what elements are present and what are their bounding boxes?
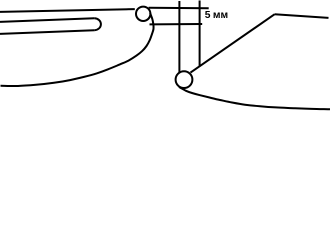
- node left curl circle: [136, 7, 150, 21]
- node fabric curl circle: [176, 71, 193, 88]
- label 5 mm: [205, 10, 228, 21]
- wire top horizontal to gauge: [149, 7, 209, 10]
- wire dimension extension line A: [178, 1, 180, 73]
- wire dimension extension line B: [199, 1, 201, 67]
- wire top line left blade: [0, 9, 135, 12]
- wire slot rounded cap: [94, 18, 101, 30]
- wire second horizontal: [150, 23, 203, 25]
- wire fabric ridge: [275, 14, 329, 18]
- wire left blade sweep: [1, 13, 154, 86]
- wire slot lower line: [0, 30, 94, 34]
- wire fabric bottom sweep: [179, 87, 330, 109]
- wire slot upper line: [0, 18, 94, 22]
- wire fabric diagonal: [191, 14, 275, 72]
